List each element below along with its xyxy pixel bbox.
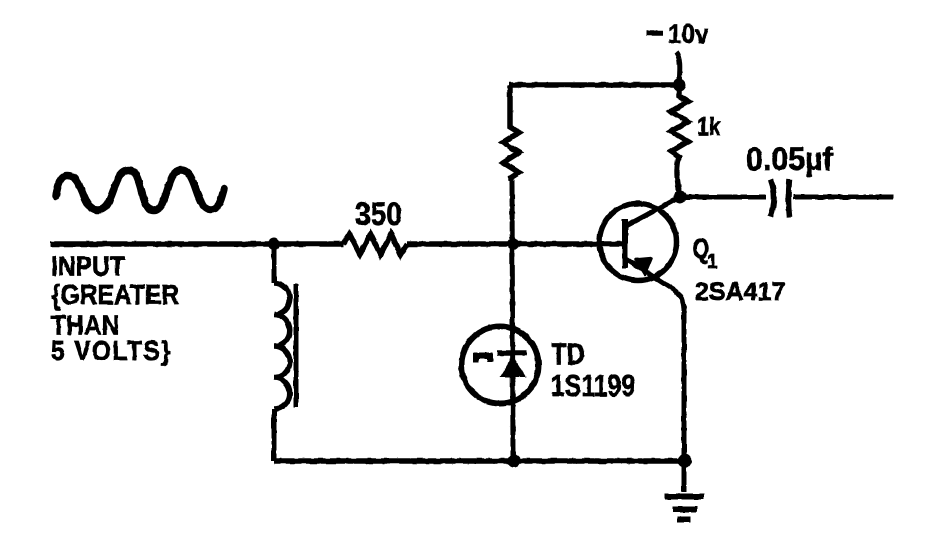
node: top junction dot <box>673 79 686 92</box>
label INPUT (GREATER THAN 5 VOLTS) <box>51 250 179 366</box>
svg-text:{GREATER: {GREATER <box>51 279 179 311</box>
inductor core line <box>294 284 299 407</box>
label -10v <box>646 30 663 36</box>
resistor R (upper left, unlabeled) <box>503 85 519 181</box>
inductor L1 coil <box>274 283 290 409</box>
label TD <box>551 337 585 372</box>
svg-text:INPUT: INPUT <box>51 250 125 282</box>
label 1k <box>697 112 721 140</box>
wire: vertical through middle node down to rail (through tunnel diode) <box>512 180 513 461</box>
wire: junction down to inductor <box>272 244 277 283</box>
wire: bottom rail <box>274 458 684 464</box>
node: output junction dot <box>674 191 687 204</box>
node: rail junction dot under tunnel diode <box>508 455 521 468</box>
capacitor C1 right plate <box>789 180 790 218</box>
label Q1 <box>692 234 709 265</box>
svg-text:1: 1 <box>707 252 718 273</box>
transistor Q1 emitter lead <box>626 259 684 461</box>
label 1S1199 <box>551 368 635 402</box>
capacitor C1 left plate (curved) <box>771 180 775 217</box>
transistor Q1 collector lead <box>626 197 680 226</box>
svg-text:350: 350 <box>355 197 402 232</box>
transistor Q1 base bar <box>622 219 628 268</box>
node: input junction dot <box>268 238 280 250</box>
transistor Q1 circle <box>600 204 677 281</box>
tunnel diode cathode bar <box>497 350 527 356</box>
tunnel diode TD circle <box>462 327 539 404</box>
tunnel diode left bracket mark <box>476 356 490 363</box>
svg-text:1S1199: 1S1199 <box>551 368 635 402</box>
tunnel diode anode triangle <box>500 356 526 377</box>
svg-text:2SA417: 2SA417 <box>695 278 785 306</box>
svg-text:5 VOLTS}: 5 VOLTS} <box>51 335 172 367</box>
wire: output wire right of capacitor <box>793 195 893 200</box>
transistor Q1 emitter arrow (PNP, pointing to base) <box>635 258 652 275</box>
ground stub <box>682 461 687 492</box>
svg-text:10v: 10v <box>668 20 709 49</box>
svg-text:1k: 1k <box>697 112 721 140</box>
wire: output wire to capacitor <box>680 195 766 200</box>
svg-text:0.05µf: 0.05µf <box>746 141 833 177</box>
label 0.05uf <box>746 141 833 177</box>
wire: input line to resistor 350 <box>50 241 343 247</box>
label 350 <box>355 197 402 232</box>
wire: -10v supply stub <box>676 52 680 85</box>
node: middle node dot <box>507 238 519 250</box>
input sine wave symbol <box>56 170 224 211</box>
wire: top horizontal wire <box>509 82 680 88</box>
node: rail junction dot at emitter column <box>678 454 692 468</box>
wire: resistor to base <box>407 241 625 247</box>
resistor 1k <box>671 85 688 197</box>
svg-text:TD: TD <box>551 337 585 372</box>
resistor 350 <box>343 234 407 255</box>
wire: inductor bottom to rail <box>272 409 277 461</box>
ground symbol <box>665 497 705 520</box>
